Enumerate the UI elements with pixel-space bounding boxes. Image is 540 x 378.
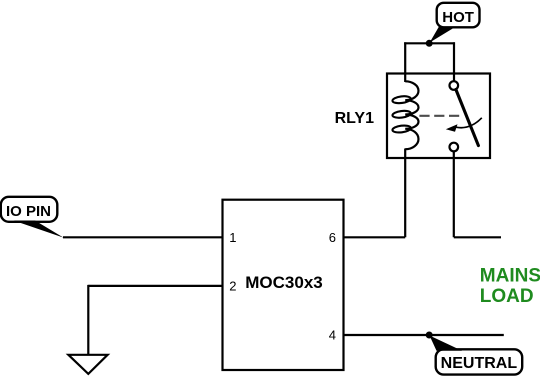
- wire: [454, 236, 501, 238]
- wire: [87, 285, 89, 355]
- svg-text:NEUTRAL: NEUTRAL: [441, 355, 518, 372]
- svg-text:HOT: HOT: [442, 9, 474, 26]
- wire: [404, 42, 406, 82]
- relay coil: [405, 81, 418, 149]
- net label MAINS LOAD: [480, 266, 540, 308]
- wire: [344, 236, 406, 238]
- svg-text:2: 2: [229, 279, 236, 294]
- wire: [453, 151, 455, 237]
- flag HOT: [430, 3, 480, 43]
- junction: [426, 332, 433, 339]
- relay RLY1 body: [387, 74, 490, 159]
- relay switch blade: [456, 90, 479, 146]
- relay contact terminal (top): [450, 81, 459, 90]
- svg-text:6: 6: [329, 230, 336, 245]
- flag IO PIN: [1, 197, 64, 238]
- flag NEUTRAL: [430, 336, 523, 375]
- junction: [426, 40, 433, 47]
- svg-text:1: 1: [229, 230, 236, 245]
- svg-text:RLY1: RLY1: [335, 110, 375, 127]
- ground: [68, 355, 107, 374]
- svg-text:MOC30x3: MOC30x3: [245, 273, 322, 292]
- svg-text:4: 4: [329, 328, 336, 343]
- wire: [63, 236, 223, 238]
- relay coil loops: [392, 95, 411, 133]
- relay switch motion arrow: [446, 118, 482, 132]
- relay actuation dashed link: [419, 115, 460, 117]
- svg-text:LOAD: LOAD: [480, 286, 534, 307]
- wire: [344, 334, 504, 336]
- svg-text:IO PIN: IO PIN: [6, 203, 51, 220]
- optocoupler U1 MOC30x3 body: [223, 200, 344, 370]
- wire: [404, 149, 406, 238]
- wire: [88, 285, 222, 287]
- relay contact terminal (bottom): [450, 143, 459, 152]
- svg-text:MAINS: MAINS: [480, 266, 540, 287]
- wire: [453, 42, 455, 82]
- wire: [404, 42, 455, 44]
